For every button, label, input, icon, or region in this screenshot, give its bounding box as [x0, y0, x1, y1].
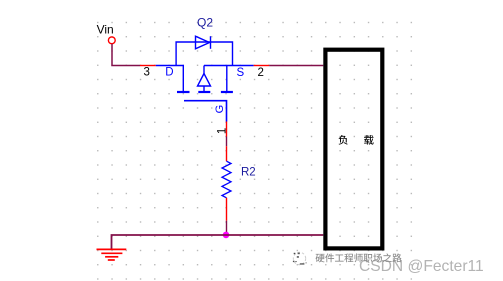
resistor R2 — [222, 146, 231, 221]
svg-text:1: 1 — [216, 128, 228, 134]
svg-text:R2: R2 — [241, 166, 256, 178]
power port Vin — [97, 23, 116, 44]
svg-text:D: D — [165, 66, 173, 78]
junction dot — [223, 232, 230, 239]
svg-text:S: S — [237, 67, 245, 79]
pin 1 G of Q2 — [214, 105, 229, 137]
svg-text:2: 2 — [258, 67, 264, 79]
watermark — [293, 252, 484, 274]
svg-text:CSDN @Fecter11: CSDN @Fecter11 — [359, 258, 484, 275]
wire Vin to Q2 drain — [112, 44, 140, 66]
svg-text:3: 3 — [144, 66, 150, 78]
wire Q2 source to load — [269, 65, 323, 67]
wire R2 to ground rail — [226, 221, 228, 235]
ground rail wire — [112, 235, 324, 249]
svg-text:G: G — [214, 105, 226, 114]
ground — [97, 249, 127, 260]
svg-text:Q2: Q2 — [197, 15, 213, 29]
body diode of Q2 — [176, 36, 232, 65]
svg-text:Vin: Vin — [97, 23, 114, 37]
transistor Q2 body — [156, 66, 254, 122]
wire gate to R2 — [226, 137, 228, 147]
load box — [325, 50, 382, 249]
label 负载 — [338, 135, 347, 145]
pin 3 D of Q2 — [140, 66, 174, 79]
pin 2 S of Q2 — [237, 66, 270, 79]
